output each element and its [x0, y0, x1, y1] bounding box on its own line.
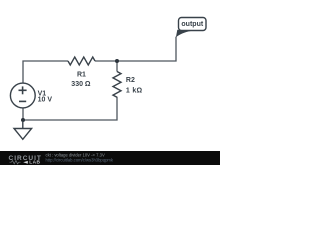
svg-text:330 Ω: 330 Ω — [71, 81, 91, 88]
svg-text:http://circuitlab.com/c/ws3h3b: http://circuitlab.com/c/ws3h3bpqpmk — [46, 157, 114, 162]
svg-text:1 kΩ: 1 kΩ — [126, 87, 143, 94]
svg-text:LAB: LAB — [29, 160, 40, 165]
svg-text:10 V: 10 V — [38, 97, 53, 104]
svg-text:R2: R2 — [126, 77, 135, 84]
svg-text:output: output — [181, 21, 203, 28]
svg-text:R1: R1 — [77, 72, 86, 79]
